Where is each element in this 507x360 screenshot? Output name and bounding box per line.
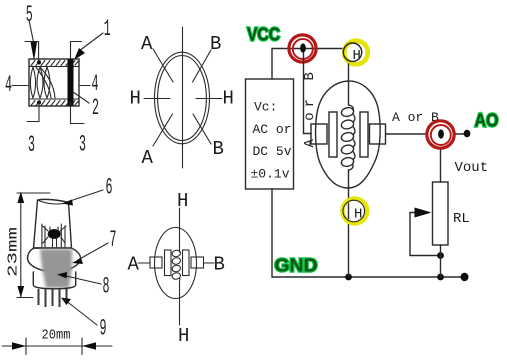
svg-text:B: B	[214, 254, 225, 276]
svg-text:Vc:: Vc:	[254, 100, 277, 115]
pin A bottom-left	[153, 114, 173, 146]
VCC terminal red ring	[289, 35, 316, 62]
svg-text:±0.1v: ±0.1v	[251, 167, 290, 182]
B pin box	[191, 257, 204, 268]
leader line 7	[78, 243, 108, 260]
svg-text:6: 6	[106, 175, 113, 201]
svg-text:H: H	[178, 325, 189, 347]
arrow 9	[61, 298, 71, 306]
AO terminal dot	[438, 129, 444, 138]
sensor cap	[34, 199, 72, 248]
leader line 4 left	[12, 85, 28, 87]
A pin box	[150, 257, 162, 268]
arrow for 1	[74, 48, 85, 60]
svg-text:1: 1	[104, 16, 111, 42]
23mm dimension line	[20, 193, 22, 297]
pot arrow line	[410, 212, 418, 214]
20mm left tick	[25, 338, 27, 355]
svg-text:4: 4	[92, 71, 99, 97]
bottom H lead	[179, 281, 181, 325]
wire AO	[456, 133, 466, 135]
bottom reference line	[17, 297, 33, 299]
sensor left pin box	[311, 124, 327, 144]
pin A top-left	[153, 49, 173, 82]
symbol body ellipse	[155, 228, 197, 299]
pot arrow head	[415, 208, 432, 218]
svg-text:3: 3	[28, 132, 35, 158]
svg-text:AC or: AC or	[253, 122, 292, 137]
bottom-left pin	[27, 102, 39, 122]
GND rail wire	[272, 276, 465, 278]
bottom H terminal circle	[343, 200, 365, 222]
svg-text:DC 5v: DC 5v	[253, 144, 292, 159]
bottom-right pin	[71, 102, 85, 124]
arrow 8	[57, 272, 67, 279]
svg-text:Vout: Vout	[455, 160, 489, 176]
23mm bottom arrow	[17, 286, 24, 298]
svg-text:H: H	[353, 48, 361, 64]
svg-text:H: H	[223, 88, 234, 110]
inner gauze curves	[30, 67, 55, 98]
arrow for 5	[31, 42, 38, 61]
svg-text:2: 2	[92, 95, 99, 121]
pins	[39, 289, 67, 307]
pin H right	[196, 98, 222, 100]
23mm top arrow	[17, 192, 24, 204]
leader line for 2	[73, 92, 89, 103]
svg-text:AO: AO	[475, 111, 499, 131]
svg-text:A: A	[142, 147, 154, 169]
AO end dot	[464, 130, 471, 138]
pin H left	[144, 98, 170, 100]
svg-text:3: 3	[79, 132, 86, 158]
wire RL to GND	[440, 245, 442, 277]
svg-text:VCC: VCC	[247, 25, 280, 45]
wire VCC to A-or-B left	[304, 53, 312, 134]
leader line 6	[67, 190, 103, 202]
pin B bottom-right	[193, 114, 211, 144]
wire AO to RL	[440, 150, 442, 182]
leader line 4 right	[80, 85, 90, 87]
sensor right electrode	[360, 112, 368, 157]
sensor right pin box	[370, 124, 386, 144]
outer ring	[155, 52, 210, 144]
svg-text:B: B	[213, 138, 224, 160]
center axis line	[182, 27, 184, 168]
pot wiper return wire	[410, 213, 440, 256]
arrow 7	[72, 258, 83, 264]
pin dots on mesh	[37, 61, 41, 65]
bottom H terminal yellow ring	[342, 199, 367, 224]
element lower legs	[43, 237, 65, 248]
svg-text:A: A	[141, 33, 153, 55]
heater coil	[172, 249, 182, 281]
top-left pin bracket	[25, 42, 39, 64]
leader line for 5	[29, 20, 34, 42]
svg-text:RL: RL	[453, 211, 470, 227]
left electrode	[165, 250, 172, 276]
svg-text:A: A	[128, 254, 140, 276]
can bottom mesh strip	[29, 99, 79, 106]
A lead wire	[138, 262, 150, 264]
sensing element blob	[48, 229, 61, 239]
leader line 8	[64, 276, 101, 285]
svg-text:H: H	[177, 190, 188, 212]
resistor RL body	[433, 182, 449, 245]
can body outline	[29, 59, 79, 106]
VCC terminal dot	[300, 43, 306, 52]
right electrode	[183, 250, 190, 276]
svg-text:20mm: 20mm	[42, 328, 71, 344]
svg-text:9: 9	[100, 316, 107, 342]
leader line 9	[65, 300, 97, 325]
wire VCC rail	[272, 49, 342, 80]
top H lead	[179, 208, 181, 252]
power supply box	[246, 79, 294, 189]
inner ring	[158, 56, 207, 141]
wire sensor bottom heater	[348, 170, 350, 277]
sensor body ellipse	[316, 81, 381, 188]
svg-text:B: B	[210, 33, 221, 55]
pin B top-right	[193, 50, 212, 82]
GND rail end dot	[461, 273, 469, 281]
svg-text:H: H	[130, 88, 141, 110]
can top mesh strip	[29, 61, 79, 67]
junction dot heater-GND	[345, 274, 352, 281]
skirt (flange)	[28, 248, 81, 272]
B lead wire	[204, 262, 215, 264]
top H terminal yellow ring	[344, 41, 368, 65]
svg-text:7: 7	[110, 227, 117, 253]
arrow 6	[62, 200, 73, 206]
cap top wobble	[38, 200, 69, 204]
leader line for 1	[79, 33, 103, 51]
20mm right arrow	[82, 342, 96, 350]
heater posts	[42, 224, 65, 247]
wire box to GND rail	[271, 189, 273, 277]
sensor left electrode	[329, 112, 337, 157]
svg-text:H: H	[354, 207, 362, 223]
AO terminal red ring	[427, 121, 454, 148]
sensing element black bar	[68, 59, 74, 106]
element legs	[43, 226, 67, 232]
wire H to sensor top	[348, 64, 350, 105]
wire sensor output	[386, 133, 426, 135]
top-right pin bracket	[71, 42, 82, 64]
junction dot RL-GND	[437, 274, 444, 281]
base shade	[40, 249, 72, 288]
20mm right tick	[81, 338, 83, 355]
wiper junction dot	[437, 252, 444, 259]
base cylinder	[33, 272, 75, 289]
top H terminal circle	[343, 43, 361, 61]
svg-text:8: 8	[103, 274, 110, 300]
svg-text:4: 4	[5, 72, 12, 98]
20mm left arrow	[12, 342, 26, 350]
sensor heater coil	[341, 105, 355, 170]
svg-text:23mm: 23mm	[6, 227, 22, 277]
20mm dimension line	[2, 345, 112, 347]
top reference line	[17, 192, 50, 194]
svg-text:GND: GND	[275, 256, 318, 276]
